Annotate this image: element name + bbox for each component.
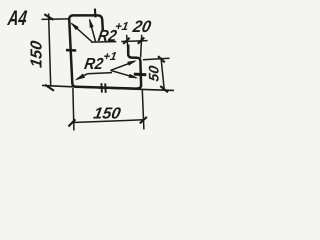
- profile outline (bent sheet, side view): [69, 15, 141, 88]
- leader R2+1 lower: arm to bottom-left bend: [77, 74, 88, 79]
- dim 150 left: bottom slash terminator: [45, 85, 54, 91]
- bottom base line (profile bottom with extension continuations): [42, 85, 174, 90]
- dim 20 top right: right extension line: [141, 35, 142, 58]
- dim 150 bottom: dimension line: [73, 120, 143, 123]
- svg-text:150: 150: [92, 105, 122, 123]
- dim 150 left: top extension line: [42, 18, 69, 21]
- leader R2+1 lower: arm to upstand bottom bend: [111, 70, 137, 77]
- svg-text:R2: R2: [83, 55, 105, 73]
- dim 150 bottom: left extension line: [73, 88, 74, 131]
- bend mark tick on right upstand: [134, 73, 147, 77]
- dim 50 right: top extension line: [143, 58, 170, 60]
- dim 20 top right: dimension line: [121, 40, 147, 43]
- leader R2+1 upper: arm to top flange: [90, 20, 96, 42]
- break marks on bottom leg: [100, 83, 103, 92]
- svg-text:+1: +1: [114, 21, 129, 33]
- dim 150 left: top slash terminator: [44, 14, 53, 20]
- leader R2+1 upper: arm to top-left bend: [72, 24, 93, 42]
- dim 20 top right: left slash terminator: [123, 38, 130, 44]
- dim 50 right: dimension line: [161, 58, 164, 90]
- bend mark tick on left leg: [66, 49, 76, 52]
- bend mark tick on top flange: [94, 9, 97, 18]
- leader R2+1 lower: shelf under text: [87, 73, 112, 74]
- dim 150 left: dimension line: [49, 14, 51, 87]
- dim 50 right: bottom slash terminator: [160, 86, 168, 92]
- svg-text:A4: A4: [6, 7, 28, 30]
- dim 20 top right: right slash terminator: [138, 38, 145, 44]
- svg-text:+1: +1: [102, 51, 117, 63]
- leader R2+1 lower: arm to upstand top bend: [111, 61, 135, 70]
- dim 150 bottom: right slash terminator: [140, 117, 147, 124]
- svg-text:150: 150: [27, 40, 45, 69]
- leader R2+1 upper: shelf under text: [91, 41, 116, 44]
- dim 20 top right: left extension line: [127, 35, 128, 49]
- dim 150 bottom: right extension line: [142, 90, 144, 130]
- svg-text:20: 20: [131, 18, 153, 36]
- dim 50 right: top slash terminator: [158, 56, 165, 62]
- dim 150 bottom: left slash terminator: [68, 119, 75, 126]
- svg-text:50: 50: [145, 64, 161, 82]
